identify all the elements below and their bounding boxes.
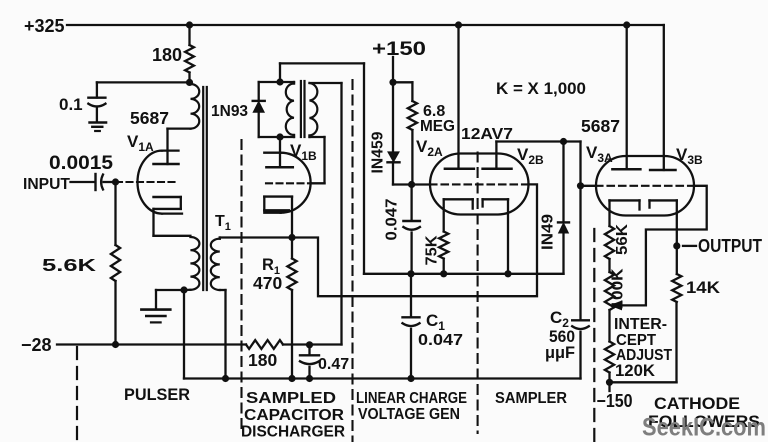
svg-text:180: 180 <box>152 45 182 65</box>
svg-text:0.0015: 0.0015 <box>49 153 113 174</box>
svg-text:PULSER: PULSER <box>124 386 190 404</box>
svg-text:75K: 75K <box>424 235 441 266</box>
svg-text:0.1: 0.1 <box>59 95 83 114</box>
svg-text:5.6K: 5.6K <box>42 255 97 275</box>
svg-text:1N93: 1N93 <box>211 103 248 120</box>
svg-text:100K: 100K <box>610 268 627 310</box>
svg-text:MEG: MEG <box>420 118 455 135</box>
svg-text:SAMPLED: SAMPLED <box>246 390 336 407</box>
svg-text:120K: 120K <box>615 361 656 380</box>
svg-text:CATHODE: CATHODE <box>654 394 740 413</box>
svg-text:0.047: 0.047 <box>384 199 401 241</box>
svg-text:+150: +150 <box>372 39 426 60</box>
svg-text:LINEAR CHARGE: LINEAR CHARGE <box>356 390 467 407</box>
svg-text:180: 180 <box>248 350 277 370</box>
svg-text:IN459: IN459 <box>370 131 387 173</box>
svg-text:12AV7: 12AV7 <box>461 126 513 143</box>
svg-text:0.047: 0.047 <box>418 332 463 349</box>
svg-text:IN49: IN49 <box>540 214 557 250</box>
svg-text:INTER-: INTER- <box>614 316 667 333</box>
svg-text:−28: −28 <box>21 335 52 355</box>
svg-text:5687: 5687 <box>130 108 169 128</box>
svg-text:SeekIC.com: SeekIC.com <box>642 414 766 442</box>
svg-text:470: 470 <box>253 273 282 293</box>
svg-text:SAMPLER: SAMPLER <box>495 390 567 407</box>
svg-text:5687: 5687 <box>581 116 620 136</box>
svg-text:K = X 1,000: K = X 1,000 <box>496 79 586 98</box>
svg-text:VOLTAGE GEN: VOLTAGE GEN <box>358 406 460 423</box>
svg-text:−150: −150 <box>597 391 633 411</box>
svg-text:μμF: μμF <box>545 343 575 362</box>
svg-text:CAPACITOR: CAPACITOR <box>244 407 344 424</box>
svg-text:DISCHARGER: DISCHARGER <box>241 424 345 441</box>
svg-text:+325: +325 <box>24 16 65 36</box>
svg-text:OUTPUT: OUTPUT <box>698 236 762 256</box>
svg-text:0.47: 0.47 <box>318 356 349 373</box>
svg-text:56K: 56K <box>614 223 631 255</box>
svg-text:14K: 14K <box>686 278 721 297</box>
svg-text:INPUT: INPUT <box>23 176 70 193</box>
